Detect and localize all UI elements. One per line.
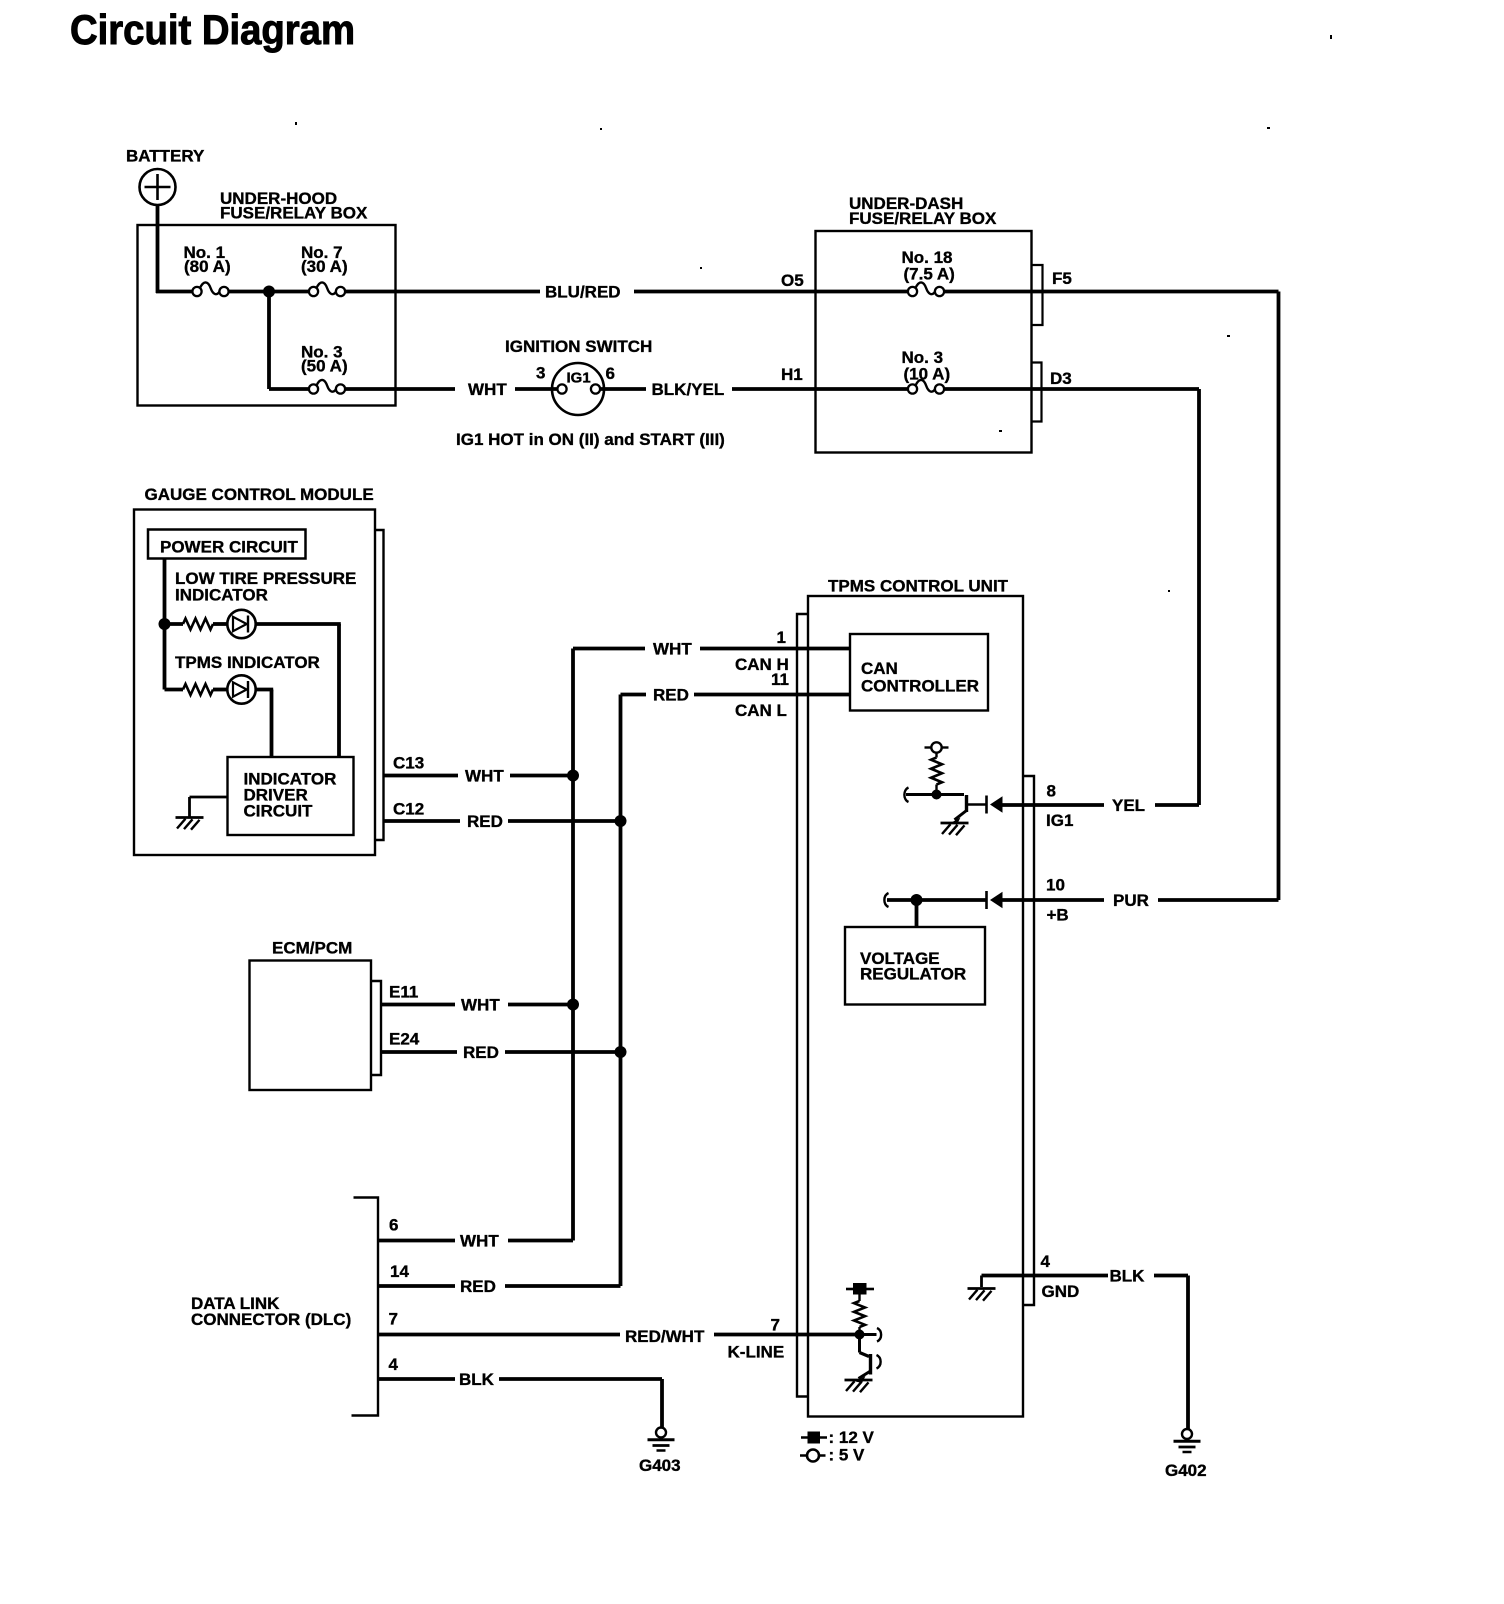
svg-text:PUR: PUR <box>1113 891 1149 910</box>
svg-text:G403: G403 <box>639 1456 681 1475</box>
svg-text:H1: H1 <box>781 365 803 384</box>
svg-text:CONNECTOR (DLC): CONNECTOR (DLC) <box>191 1310 351 1329</box>
svg-text:WHT: WHT <box>653 639 692 658</box>
svg-text:O5: O5 <box>781 271 804 290</box>
svg-text:F5: F5 <box>1052 269 1072 288</box>
svg-text:C13: C13 <box>393 754 424 773</box>
svg-text:RED: RED <box>653 685 689 704</box>
svg-text:4: 4 <box>389 1355 399 1374</box>
svg-text:C12: C12 <box>393 800 424 819</box>
svg-text:6: 6 <box>389 1216 398 1235</box>
svg-text:3: 3 <box>536 364 545 383</box>
svg-text:RED: RED <box>467 812 503 831</box>
svg-text:RED: RED <box>460 1277 496 1296</box>
svg-text:IG1 HOT in ON (II) and START (: IG1 HOT in ON (II) and START (III) <box>456 430 725 449</box>
svg-text:(80 A): (80 A) <box>184 257 231 276</box>
svg-text:+B: +B <box>1047 906 1069 925</box>
svg-text:(30 A): (30 A) <box>301 257 348 276</box>
svg-text:14: 14 <box>390 1262 409 1281</box>
svg-text:(50 A): (50 A) <box>301 357 348 376</box>
svg-text:RED/WHT: RED/WHT <box>625 1327 705 1346</box>
svg-text:4: 4 <box>1041 1252 1051 1271</box>
svg-text:8: 8 <box>1047 782 1056 801</box>
svg-text:E11: E11 <box>389 983 418 1002</box>
svg-text:WHT: WHT <box>465 766 504 785</box>
svg-text:CIRCUIT: CIRCUIT <box>244 802 314 821</box>
svg-text:(10 A): (10 A) <box>904 365 951 384</box>
svg-text:11: 11 <box>771 670 789 689</box>
svg-text:: 5 V: : 5 V <box>829 1446 866 1465</box>
svg-text:GAUGE CONTROL MODULE: GAUGE CONTROL MODULE <box>145 485 374 504</box>
svg-text:: 12 V: : 12 V <box>829 1428 875 1447</box>
svg-text:6: 6 <box>606 364 615 383</box>
svg-text:ECM/PCM: ECM/PCM <box>272 939 352 958</box>
svg-text:RED: RED <box>463 1043 499 1062</box>
svg-text:D3: D3 <box>1050 369 1072 388</box>
svg-text:7: 7 <box>389 1310 398 1329</box>
svg-text:IG1: IG1 <box>1046 811 1073 830</box>
svg-text:K-LINE: K-LINE <box>728 1343 785 1362</box>
svg-text:G402: G402 <box>1165 1461 1207 1480</box>
svg-text:CONTROLLER: CONTROLLER <box>861 677 979 696</box>
svg-text:TPMS INDICATOR: TPMS INDICATOR <box>175 653 320 672</box>
svg-text:7: 7 <box>771 1316 780 1335</box>
svg-text:GND: GND <box>1042 1282 1080 1301</box>
svg-text:WHT: WHT <box>468 380 507 399</box>
svg-text:10: 10 <box>1046 876 1065 895</box>
svg-text:1: 1 <box>777 628 786 647</box>
svg-text:YEL: YEL <box>1112 796 1145 815</box>
svg-text:REGULATOR: REGULATOR <box>860 965 966 984</box>
svg-text:BLK: BLK <box>459 1370 495 1389</box>
svg-text:IGNITION SWITCH: IGNITION SWITCH <box>505 337 652 356</box>
svg-text:WHT: WHT <box>460 1231 499 1250</box>
svg-text:E24: E24 <box>389 1030 420 1049</box>
svg-text:TPMS CONTROL UNIT: TPMS CONTROL UNIT <box>828 577 1009 596</box>
svg-text:FUSE/RELAY BOX: FUSE/RELAY BOX <box>220 204 368 223</box>
svg-text:INDICATOR: INDICATOR <box>175 586 268 605</box>
svg-text:BLU/RED: BLU/RED <box>545 282 621 301</box>
svg-text:BLK/YEL: BLK/YEL <box>652 380 725 399</box>
svg-text:POWER CIRCUIT: POWER CIRCUIT <box>160 538 299 557</box>
svg-text:WHT: WHT <box>461 995 500 1014</box>
svg-text:FUSE/RELAY BOX: FUSE/RELAY BOX <box>849 209 997 228</box>
svg-text:BLK: BLK <box>1110 1266 1146 1285</box>
svg-text:(7.5 A): (7.5 A) <box>904 265 955 284</box>
svg-text:CAN: CAN <box>861 659 898 678</box>
svg-text:BATTERY: BATTERY <box>126 147 205 166</box>
svg-text:Circuit Diagram: Circuit Diagram <box>70 6 355 53</box>
svg-text:CAN L: CAN L <box>735 701 787 720</box>
svg-text:IG1: IG1 <box>567 370 591 387</box>
